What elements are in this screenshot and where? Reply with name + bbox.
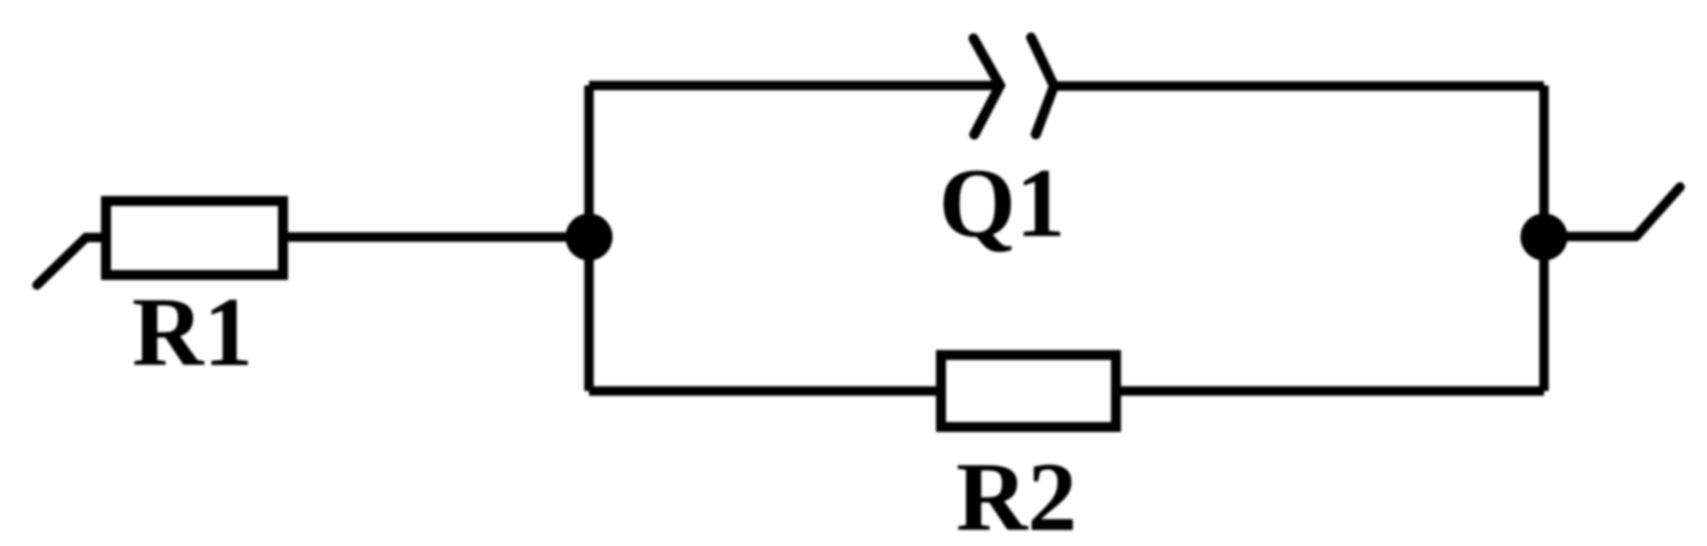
component Q1 (break symbol, left chevron plate) (974, 38, 1001, 134)
wire top rail right segment (1054, 81, 1544, 91)
wire right branch vertical (1539, 86, 1549, 392)
terminal lead (left input, slanted) (37, 238, 103, 286)
wire R1 to node A (288, 232, 589, 242)
svg-text:Q1: Q1 (939, 149, 1066, 258)
wire bottom rail left segment (589, 386, 941, 396)
component Q1 (break symbol, right chevron plate) (1031, 38, 1054, 135)
wire bottom rail right segment (1116, 386, 1544, 396)
wire top rail left segment (589, 81, 1000, 91)
resistor R1 (106, 201, 283, 275)
node B (right junction) (1521, 214, 1568, 261)
wire node B to output (1544, 232, 1636, 242)
node A (left junction) (566, 214, 613, 261)
wire left branch vertical (584, 86, 594, 392)
terminal lead (right output, slanted) (1636, 187, 1680, 237)
svg-text:R2: R2 (956, 443, 1077, 546)
svg-text:R1: R1 (132, 278, 253, 387)
resistor R2 (941, 355, 1116, 427)
